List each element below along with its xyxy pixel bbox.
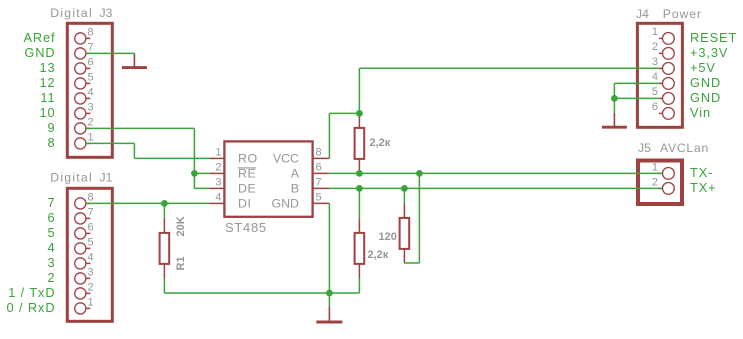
svg-text:DI: DI bbox=[238, 196, 251, 210]
wire IC GND riser bbox=[328, 203, 330, 293]
svg-text:5: 5 bbox=[88, 72, 94, 84]
svg-text:1 / TxD: 1 / TxD bbox=[8, 285, 55, 300]
IC pin 3 DE bbox=[209, 177, 256, 196]
IC pin 8 VCC bbox=[273, 147, 330, 166]
J1 pin 1 bbox=[75, 297, 94, 315]
svg-text:B: B bbox=[291, 181, 299, 195]
wire R4 bottom jog bbox=[404, 262, 419, 264]
svg-text:20K: 20K bbox=[175, 216, 187, 236]
svg-text:2,2к: 2,2к bbox=[368, 249, 389, 261]
svg-text:3: 3 bbox=[215, 177, 221, 189]
IC pin 1 RO bbox=[209, 147, 257, 166]
wire +5V riser bbox=[358, 68, 360, 113]
J1 pin 3 bbox=[75, 267, 94, 285]
svg-text:2: 2 bbox=[215, 162, 221, 174]
svg-text:+3,3V: +3,3V bbox=[690, 45, 728, 60]
svg-text:ST485: ST485 bbox=[225, 220, 267, 235]
svg-text:6: 6 bbox=[652, 101, 658, 113]
node junction A at R2 bottom bbox=[356, 170, 363, 177]
svg-text:GND: GND bbox=[690, 90, 721, 105]
J3 pin 4 bbox=[75, 87, 94, 105]
svg-text:J1: J1 bbox=[100, 171, 113, 185]
J3 pin 2 bbox=[75, 117, 94, 135]
J4 pin 3 bbox=[652, 56, 674, 74]
svg-text:TX+: TX+ bbox=[690, 180, 717, 195]
J5 pin 1 bbox=[652, 162, 674, 180]
connector J1 title bbox=[50, 171, 112, 185]
node junction B at R3 top bbox=[356, 185, 363, 192]
J5 net labels bbox=[690, 165, 717, 195]
svg-text:2,2к: 2,2к bbox=[370, 137, 391, 149]
J1 pin 6 bbox=[75, 222, 94, 239]
svg-text:Digital: Digital bbox=[50, 6, 93, 20]
wire net B row bbox=[329, 187, 662, 189]
wire jog down bbox=[133, 143, 135, 158]
svg-text:4: 4 bbox=[652, 71, 658, 83]
node junction at RE branch bbox=[191, 170, 198, 177]
svg-text:2: 2 bbox=[88, 282, 94, 294]
svg-text:GND: GND bbox=[24, 45, 55, 60]
svg-text:DE: DE bbox=[238, 181, 256, 195]
svg-text:8: 8 bbox=[47, 135, 55, 150]
node junction J4 gnd bbox=[611, 95, 618, 102]
svg-text:1: 1 bbox=[88, 297, 94, 309]
J1 pin 7 bbox=[75, 207, 94, 224]
wire VCC to +5V node bbox=[329, 112, 359, 114]
svg-text:0 / RxD: 0 / RxD bbox=[7, 300, 56, 315]
connector J5 title bbox=[638, 141, 709, 155]
svg-text:1: 1 bbox=[652, 26, 658, 38]
J3 pin 1 bbox=[75, 132, 94, 149]
connector J3 box bbox=[67, 23, 112, 157]
wire riser to net A bbox=[418, 173, 420, 263]
wire R1 bottom lead net bbox=[163, 278, 165, 293]
wire J1 pin8 to DI bbox=[86, 202, 209, 204]
svg-text:3: 3 bbox=[47, 255, 55, 270]
IC pin 6 A bbox=[291, 162, 330, 181]
J4 net labels bbox=[690, 30, 737, 120]
wire R3 bottom to rail bbox=[358, 278, 360, 293]
J1 pin 2 bbox=[75, 282, 94, 300]
svg-text:12: 12 bbox=[39, 75, 55, 90]
wire +5V to J4 pin3 bbox=[359, 67, 659, 69]
svg-text:8: 8 bbox=[88, 27, 94, 39]
J3 pin 3 bbox=[75, 102, 94, 120]
connector J1 box bbox=[67, 188, 112, 321]
wire stub to ground bbox=[328, 293, 330, 307]
svg-text:2: 2 bbox=[652, 177, 658, 189]
J3 pin 6 bbox=[75, 57, 94, 75]
svg-text:RESET: RESET bbox=[690, 30, 737, 45]
wire branch into RE bbox=[194, 172, 209, 174]
svg-text:2: 2 bbox=[88, 117, 94, 129]
J3 net labels bbox=[23, 30, 55, 150]
svg-text:GND: GND bbox=[690, 75, 721, 90]
svg-text:5: 5 bbox=[47, 225, 55, 240]
wire J3 pin2 horizontal bbox=[86, 127, 194, 129]
wire into RO bbox=[134, 157, 209, 159]
wire J4 pin4 GND bbox=[614, 82, 659, 84]
svg-text:120: 120 bbox=[379, 231, 397, 243]
svg-text:13: 13 bbox=[39, 60, 55, 75]
J3 pin 8 bbox=[75, 27, 94, 45]
node junction R1 top bbox=[161, 200, 168, 207]
svg-text:3: 3 bbox=[88, 102, 94, 114]
wire bottom rail to ground bbox=[164, 292, 359, 294]
ground symbol GND2 bottom middle bbox=[316, 307, 342, 322]
J4 pin 2 bbox=[652, 41, 674, 59]
svg-text:GND: GND bbox=[271, 196, 299, 210]
svg-text:ARef: ARef bbox=[23, 30, 55, 45]
J1 pin 4 bbox=[75, 252, 94, 270]
J4 pin 5 bbox=[652, 86, 674, 104]
J3 pin 5 bbox=[75, 72, 94, 90]
svg-text:6: 6 bbox=[47, 210, 55, 225]
svg-text:5: 5 bbox=[652, 86, 658, 98]
wire into DE bbox=[194, 187, 209, 189]
svg-text:Power: Power bbox=[663, 7, 702, 21]
J1 pin 5 bbox=[75, 237, 94, 254]
resistor R2 2,2k top bbox=[355, 113, 365, 173]
wire net A row bbox=[329, 172, 662, 174]
J4 pin 4 bbox=[652, 71, 674, 89]
connector J5 box bbox=[638, 161, 682, 205]
ground symbol GND1 near J3 bbox=[122, 53, 147, 67]
wire vertical drop to DE bbox=[193, 128, 195, 188]
J5 pin 2 bbox=[652, 177, 674, 195]
svg-text:2: 2 bbox=[652, 41, 658, 53]
wire R1 top lead net bbox=[163, 203, 165, 218]
wire B down to R3 bbox=[358, 188, 360, 218]
svg-text:6: 6 bbox=[88, 222, 94, 234]
J3 pin 7 bbox=[75, 42, 94, 60]
svg-text:R1: R1 bbox=[175, 256, 187, 270]
J4 pin 6 bbox=[652, 101, 674, 119]
IC pin 5 GND bbox=[271, 192, 329, 211]
svg-text:TX-: TX- bbox=[690, 165, 713, 180]
IC pin 2 RE bbox=[209, 162, 256, 181]
svg-text:Digital: Digital bbox=[50, 171, 93, 185]
connector J3 title bbox=[50, 6, 112, 20]
svg-text:J4: J4 bbox=[636, 7, 649, 21]
resistor R3 2,2k bottom bbox=[355, 218, 365, 278]
J1 net labels bbox=[7, 195, 56, 315]
J4 pin 1 bbox=[652, 26, 674, 44]
svg-text:A: A bbox=[291, 166, 300, 180]
wire J3 pin1 horizontal bbox=[86, 142, 134, 144]
svg-text:J3: J3 bbox=[100, 6, 113, 20]
svg-text:7: 7 bbox=[47, 195, 55, 210]
IC pin 4 DI bbox=[209, 192, 251, 211]
svg-text:5: 5 bbox=[316, 192, 322, 204]
node junction A at riser bbox=[416, 170, 423, 177]
svg-text:2: 2 bbox=[47, 270, 55, 285]
svg-text:4: 4 bbox=[47, 240, 55, 255]
wire J4 gnd riser bbox=[613, 83, 615, 113]
svg-text:4: 4 bbox=[88, 87, 94, 99]
ground symbol GND3 near J4 bbox=[602, 113, 627, 127]
wire GND from J3 pin7 bbox=[86, 52, 134, 54]
svg-text:11: 11 bbox=[40, 90, 55, 105]
svg-text:7: 7 bbox=[316, 177, 322, 189]
svg-text:7: 7 bbox=[88, 42, 94, 54]
svg-text:10: 10 bbox=[39, 105, 55, 120]
svg-text:7: 7 bbox=[88, 207, 94, 219]
svg-text:J5: J5 bbox=[638, 141, 651, 155]
resistor R1 20K bbox=[160, 218, 170, 278]
svg-text:6: 6 bbox=[316, 162, 322, 174]
svg-text:4: 4 bbox=[88, 252, 94, 264]
wire B down to R4 bbox=[403, 188, 405, 203]
svg-text:RO: RO bbox=[238, 151, 258, 165]
svg-text:Vin: Vin bbox=[690, 105, 711, 120]
svg-text:8: 8 bbox=[88, 192, 94, 204]
resistor R4 120 bbox=[400, 203, 410, 263]
svg-text:VCC: VCC bbox=[273, 151, 299, 165]
wire VCC riser bbox=[328, 113, 330, 158]
node junction ground tap bbox=[326, 290, 333, 297]
svg-text:3: 3 bbox=[88, 267, 94, 279]
IC U1 ST485 box bbox=[224, 141, 312, 216]
svg-text:1: 1 bbox=[652, 162, 658, 174]
J1 pin 8 bbox=[75, 192, 94, 209]
node junction +5V/VCC/R2 bbox=[356, 110, 363, 117]
svg-text:4: 4 bbox=[215, 192, 221, 204]
svg-text:+5V: +5V bbox=[690, 60, 716, 75]
node junction B at R4 top bbox=[401, 185, 408, 192]
svg-text:6: 6 bbox=[88, 57, 94, 69]
connector J4 title bbox=[636, 7, 702, 21]
svg-text:AVCLan: AVCLan bbox=[660, 141, 709, 155]
IC pin 7 B bbox=[291, 177, 330, 196]
connector J4 box bbox=[637, 23, 682, 127]
svg-text:3: 3 bbox=[652, 56, 658, 68]
svg-text:9: 9 bbox=[47, 120, 55, 135]
svg-text:1: 1 bbox=[215, 147, 221, 159]
svg-text:8: 8 bbox=[316, 147, 322, 159]
svg-text:5: 5 bbox=[88, 237, 94, 249]
svg-text:1: 1 bbox=[88, 132, 94, 144]
wire J4 pin5 GND bbox=[614, 97, 659, 99]
